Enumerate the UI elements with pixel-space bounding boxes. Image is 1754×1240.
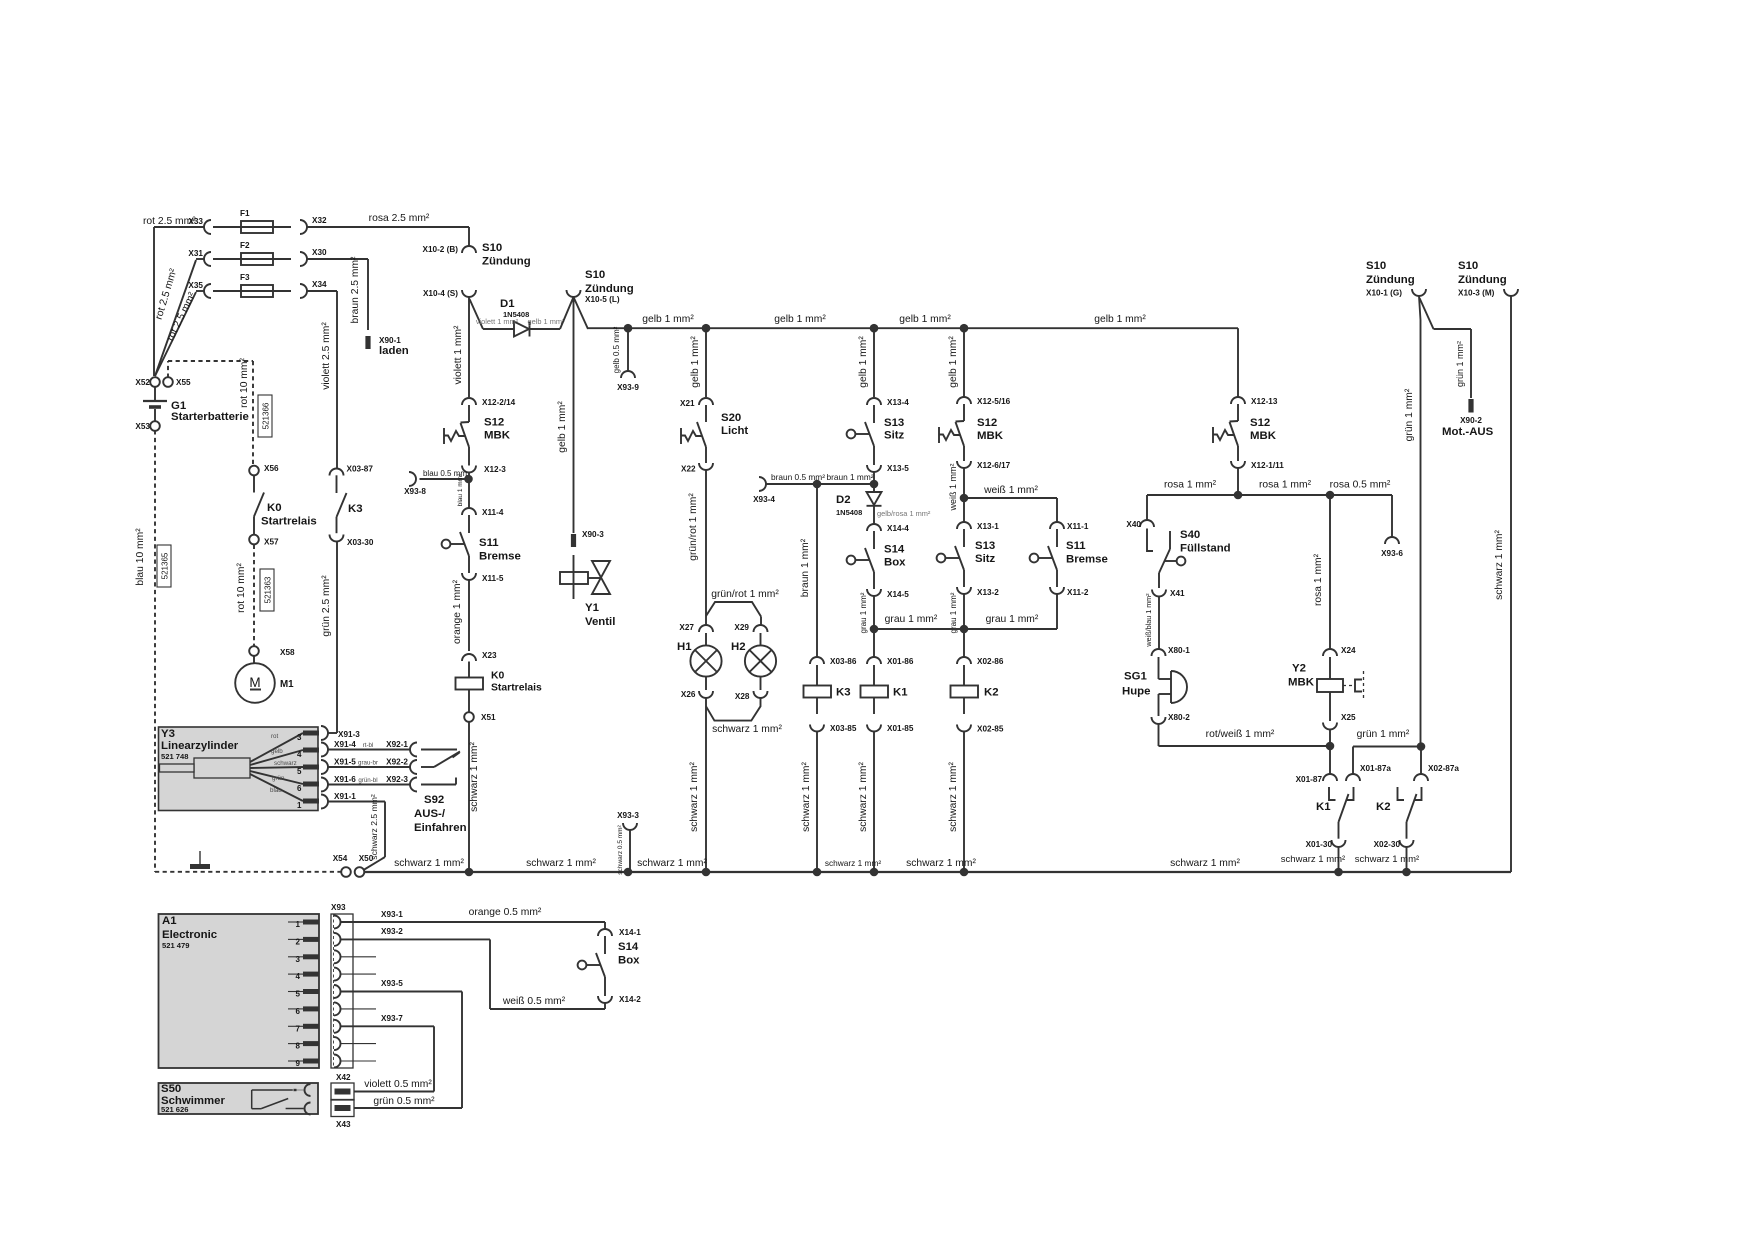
wire schwarz 1 mm² ground bus [364, 871, 1511, 873]
connector X93-4 [759, 477, 766, 491]
wire gruen 2.5 mm² X03-30 to X91-3 [336, 541, 338, 733]
svg-text:schwarz 1 mm²: schwarz 1 mm² [825, 858, 881, 868]
connector X93 pin 9 [334, 1055, 341, 1068]
svg-text:1: 1 [296, 920, 301, 929]
wire rosa 2.5 mm² from X32 to X10-2 [307, 226, 469, 228]
svg-text:grau 1 mm²: grau 1 mm² [859, 592, 868, 633]
svg-text:S20: S20 [721, 412, 741, 424]
svg-text:grün 2.5 mm²: grün 2.5 mm² [321, 575, 332, 637]
wire X10-5 V branches to gelb bus [560, 297, 574, 329]
svg-text:violett 0.5 mm²: violett 0.5 mm² [364, 1079, 432, 1090]
svg-text:X43: X43 [336, 1120, 351, 1129]
connector X03-30 [330, 535, 344, 542]
svg-text:Y1: Y1 [585, 602, 600, 614]
svg-text:S92: S92 [424, 794, 444, 806]
svg-text:X25: X25 [1341, 713, 1356, 722]
connector X54 [341, 867, 351, 877]
svg-text:8: 8 [296, 1042, 301, 1051]
svg-text:X13-1: X13-1 [977, 522, 999, 531]
svg-text:X80-2: X80-2 [1168, 713, 1190, 722]
svg-text:M: M [249, 675, 260, 690]
svg-text:M1: M1 [280, 679, 294, 690]
svg-text:X91-3: X91-3 [338, 730, 360, 739]
svg-text:X10-4 (S): X10-4 (S) [423, 289, 458, 298]
svg-text:X02-85: X02-85 [977, 725, 1004, 734]
svg-text:521 626: 521 626 [161, 1105, 188, 1114]
svg-text:X03-85: X03-85 [830, 724, 857, 733]
connector X91-4 [321, 743, 328, 757]
wire rot 10 mm² (dashed) X57 to X58 [253, 545, 255, 647]
svg-text:4: 4 [297, 750, 302, 759]
svg-text:6: 6 [297, 784, 302, 793]
svg-text:X10-1 (G): X10-1 (G) [1366, 289, 1402, 298]
connector X35 [204, 284, 211, 298]
wire orange 1 mm² X11-5 to X23 [468, 580, 470, 651]
S50 internal contact [251, 1090, 253, 1109]
svg-text:D1: D1 [500, 298, 515, 310]
svg-text:Zündung: Zündung [1366, 274, 1415, 286]
label 521363 [260, 569, 274, 611]
fuse F1 [213, 226, 291, 228]
svg-text:S10: S10 [585, 269, 605, 281]
svg-text:X93: X93 [331, 903, 346, 912]
connector X93 pin 3 [334, 950, 341, 963]
terminal X90-2 Mot.-AUS [1468, 399, 1473, 413]
connector X01-30 [1332, 840, 1346, 847]
svg-text:AUS-/: AUS-/ [414, 808, 446, 820]
svg-text:K1: K1 [893, 687, 908, 699]
svg-text:schwarz 1 mm²: schwarz 1 mm² [801, 762, 812, 832]
pin 9 of A1 [288, 1060, 303, 1062]
pin 1 with wire blau [250, 774, 303, 801]
ground symbol [199, 851, 201, 864]
svg-text:weiß 1 mm²: weiß 1 mm² [948, 463, 958, 511]
svg-text:grau 1 mm²: grau 1 mm² [885, 614, 938, 625]
svg-text:X02-30: X02-30 [1374, 840, 1401, 849]
svg-text:Bremse: Bremse [1066, 554, 1108, 566]
relay coil K1 [873, 665, 875, 686]
svg-text:X01-85: X01-85 [887, 724, 914, 733]
svg-text:X53: X53 [135, 422, 150, 431]
wire gruen 0.5 mm² X43 to X93-5 [354, 1107, 462, 1109]
svg-text:X93-4: X93-4 [753, 495, 775, 504]
svg-text:K3: K3 [348, 503, 363, 515]
wire to D2 [873, 472, 875, 492]
wire weiss/blau 1 mm² X41 to X80-1 [1158, 597, 1160, 650]
svg-text:Electronic: Electronic [162, 929, 217, 941]
wire rot 10 mm² (dashed) X55 to X56 [167, 361, 169, 378]
svg-text:X11-5: X11-5 [482, 574, 504, 583]
svg-text:X14-2: X14-2 [619, 995, 641, 1004]
wire orange 0.5 mm² X93-1 to X14-1 [340, 921, 605, 923]
svg-text:X91-6: X91-6 [334, 775, 356, 784]
connector X30 [300, 252, 307, 266]
svg-text:521 479: 521 479 [162, 941, 189, 950]
connector X31 [204, 252, 211, 266]
wire grau-br X91-5 to X92-2 [328, 766, 410, 768]
connector X13-1 [957, 522, 971, 529]
wire rot/weiss 1 mm² X80-2 to Y2 column [1158, 724, 1160, 746]
svg-text:Füllstand: Füllstand [1180, 543, 1231, 555]
svg-text:schwarz 1 mm²: schwarz 1 mm² [948, 762, 959, 832]
svg-text:Sitz: Sitz [975, 553, 996, 565]
node weiss junction [960, 494, 969, 503]
connector X40 [1140, 520, 1154, 527]
svg-text:gelb 0.5 mm²: gelb 0.5 mm² [612, 326, 621, 373]
svg-text:grün 1 mm²: grün 1 mm² [1404, 388, 1415, 441]
svg-text:S12: S12 [977, 417, 997, 429]
connector X01-87 [1323, 774, 1337, 781]
wire violett 0.5 mm² X42 to X93-7 [354, 1091, 434, 1093]
switch S20 Licht [705, 405, 707, 422]
svg-text:Box: Box [884, 557, 906, 569]
svg-text:Sitz: Sitz [884, 430, 905, 442]
svg-text:X93-9: X93-9 [617, 383, 639, 392]
svg-text:schwarz 1 mm²: schwarz 1 mm² [712, 724, 782, 735]
terminal X90-3 [571, 534, 576, 547]
svg-text:Hupe: Hupe [1122, 686, 1150, 698]
node rosa junction X12 [1234, 491, 1243, 500]
connector X50 [355, 867, 365, 877]
connector X53 [150, 421, 160, 431]
relay contact K0 Startrelais [253, 475, 255, 493]
wire gelb 1 mm² bus to X13-4 [873, 328, 875, 397]
svg-text:MBK: MBK [484, 430, 511, 442]
wire schwarz 1 mm² X51 to bus [468, 721, 470, 872]
connector X93-3 [623, 823, 637, 830]
connector X25 [1323, 723, 1337, 730]
connector X91-1 [321, 795, 328, 809]
connector X02-85 [957, 725, 971, 732]
svg-text:K2: K2 [984, 687, 999, 699]
svg-text:X12-13: X12-13 [1251, 397, 1278, 406]
svg-text:grün 1 mm²: grün 1 mm² [1455, 341, 1465, 387]
connector X22 [699, 463, 713, 470]
svg-text:SG1: SG1 [1124, 671, 1147, 683]
svg-text:X13-4: X13-4 [887, 398, 909, 407]
svg-text:X12-5/16: X12-5/16 [977, 397, 1011, 406]
pin 5 with wire schwarz [250, 767, 303, 768]
pin 2 of A1 [288, 938, 303, 940]
svg-text:X58: X58 [280, 648, 295, 657]
svg-text:braun 2.5 mm²: braun 2.5 mm² [350, 256, 361, 324]
wire schwarz 2.5 mm² X91-1 to X50 [328, 801, 385, 803]
svg-text:X32: X32 [312, 216, 327, 225]
svg-text:blau 10 mm²: blau 10 mm² [135, 528, 146, 586]
connector X93 pin 8 [334, 1037, 341, 1050]
connector X12-13 [1231, 397, 1245, 404]
wire gelb 1 mm² X10-5 down to Y1 [573, 297, 575, 533]
connector X93 pin 1 [334, 916, 341, 929]
wire rosa 1 mm² down to bus [1237, 468, 1239, 495]
connector X12-5/16 [957, 397, 971, 404]
svg-text:7: 7 [296, 1024, 301, 1033]
svg-text:X02-87a: X02-87a [1428, 764, 1459, 773]
wire braun 1 mm² down to X03-86 [816, 484, 818, 657]
svg-text:grün/rot 1 mm²: grün/rot 1 mm² [688, 493, 699, 561]
svg-text:MBK: MBK [977, 430, 1004, 442]
svg-text:braun 1 mm²: braun 1 mm² [826, 472, 873, 482]
connector X02-86 [957, 657, 971, 664]
connector X13-5 [867, 465, 881, 472]
svg-text:D2: D2 [836, 494, 851, 506]
svg-text:S40: S40 [1180, 529, 1200, 541]
svg-text:K0: K0 [491, 671, 505, 682]
svg-text:gelb 1 mm²: gelb 1 mm² [690, 336, 701, 388]
svg-text:F1: F1 [240, 209, 250, 218]
wire gruen 1 mm² X10-1 down to K contacts [1419, 296, 1421, 320]
node grau junction [870, 625, 879, 634]
svg-text:X10-5 (L): X10-5 (L) [585, 295, 620, 304]
svg-text:X03-86: X03-86 [830, 657, 857, 666]
svg-text:rot 10 mm²: rot 10 mm² [239, 358, 250, 408]
node braun junction S13 column [870, 480, 879, 489]
svg-text:X21: X21 [680, 399, 695, 408]
connector X28 [754, 691, 768, 698]
wire gelb 1 mm² bus corner down to X12-13 [1237, 328, 1239, 397]
connector X23 [462, 654, 476, 661]
svg-text:X01-86: X01-86 [887, 657, 914, 666]
connector X56 [249, 466, 259, 476]
svg-text:X90-3: X90-3 [582, 530, 604, 539]
svg-text:rt-bl: rt-bl [363, 742, 374, 749]
svg-text:schwarz 1 mm²: schwarz 1 mm² [906, 858, 976, 869]
connector X24 [1323, 649, 1337, 656]
wire rosa bus left corner to X40 [1146, 495, 1148, 520]
float switch S50 Schwimmer block [159, 1083, 319, 1114]
svg-text:X12-3: X12-3 [484, 465, 506, 474]
svg-text:gelb 1 mm²: gelb 1 mm² [557, 401, 568, 453]
svg-text:S12: S12 [484, 417, 504, 429]
svg-text:gelb 1 mm²: gelb 1 mm² [899, 314, 951, 325]
connector strip X93 [331, 914, 353, 1068]
connector X21 [699, 398, 713, 405]
node rosa junction Y2 [1326, 491, 1335, 500]
wire rot 2.5 mm² from battery to F3 (X35) [155, 292, 196, 376]
svg-text:S11: S11 [1066, 540, 1086, 552]
fuse F2 [213, 258, 291, 260]
svg-text:gelb 1 mm²: gelb 1 mm² [948, 336, 959, 388]
connector X03-85 [810, 725, 824, 732]
svg-text:X14-5: X14-5 [887, 590, 909, 599]
svg-text:S13: S13 [884, 417, 904, 429]
svg-text:orange 1 mm²: orange 1 mm² [452, 579, 463, 644]
pin 8 of A1 [288, 1043, 303, 1045]
svg-text:X11-4: X11-4 [482, 508, 504, 517]
svg-text:X13-5: X13-5 [887, 464, 909, 473]
svg-text:violett 1 mm²: violett 1 mm² [476, 317, 519, 326]
svg-text:X91-1: X91-1 [334, 792, 356, 801]
svg-text:S12: S12 [1250, 417, 1270, 429]
connector X11-5 [462, 573, 476, 580]
switch S13 Sitz (2) [963, 529, 965, 547]
svg-text:schwarz 1 mm²: schwarz 1 mm² [526, 858, 596, 869]
svg-text:violett 2.5 mm²: violett 2.5 mm² [321, 322, 332, 390]
connector X12-2/14 [462, 398, 476, 405]
svg-text:X34: X34 [312, 280, 327, 289]
connector X55 [163, 377, 173, 387]
wire gelb 1 mm² bus [588, 327, 1238, 329]
node gelb junction S12 [960, 324, 969, 333]
svg-text:2: 2 [296, 937, 301, 946]
svg-text:gelb 1 mm²: gelb 1 mm² [774, 314, 826, 325]
connector X32 [300, 220, 307, 234]
wire rot 2.5 mm² from battery to F1 [153, 227, 155, 376]
wire rosa 1 mm² bus [1147, 494, 1392, 496]
label 521366 [258, 395, 272, 437]
svg-text:X10-3 (M): X10-3 (M) [1458, 289, 1495, 298]
svg-text:rosa 0.5 mm²: rosa 0.5 mm² [1330, 480, 1391, 491]
svg-text:X13-2: X13-2 [977, 588, 999, 597]
svg-text:X02-86: X02-86 [977, 657, 1004, 666]
svg-text:X91-5: X91-5 [334, 758, 356, 767]
connector X93-9 [621, 371, 635, 378]
svg-text:X54: X54 [333, 854, 348, 863]
svg-text:schwarz 0.5 mm²: schwarz 0.5 mm² [617, 824, 624, 874]
svg-text:X12-2/14: X12-2/14 [482, 398, 516, 407]
svg-text:weiß 0.5 mm²: weiß 0.5 mm² [502, 996, 566, 1007]
svg-text:S13: S13 [975, 540, 995, 552]
svg-text:schwarz 1 mm²: schwarz 1 mm² [858, 762, 869, 832]
svg-text:grau-br: grau-br [358, 760, 378, 767]
connector X92-1 [410, 743, 417, 757]
node gelb junction S20 [702, 324, 711, 333]
wire rosa 0.5 right corner to X93-6 [1391, 495, 1393, 537]
wire schwarz 1 mm² K1 to bus [873, 732, 875, 873]
svg-text:Y3: Y3 [161, 728, 175, 740]
valve Y1 Ventil [573, 555, 575, 599]
pin 6 with wire gruen [250, 771, 303, 784]
connector X57 [249, 535, 259, 545]
svg-text:Box: Box [618, 955, 640, 967]
node junction blau [468, 473, 470, 509]
connector X10-5 (L) S10 Zündung [567, 290, 581, 297]
svg-text:A1: A1 [162, 915, 177, 927]
wire rot 2.5 mm² from battery to F2 (X31) [155, 260, 196, 376]
connector X01-86 [867, 657, 881, 664]
connector X93-8 [409, 472, 416, 486]
svg-text:521366: 521366 [262, 402, 271, 429]
switch S12 MBK (3) [1237, 404, 1239, 421]
connector X14-5 [867, 589, 881, 596]
connector X01-85 [867, 725, 881, 732]
relay contact K1 [1329, 787, 1336, 800]
wire branch to X90-2 Mot.-AUS [1420, 298, 1434, 329]
wire ground bus dashed segment [155, 871, 342, 873]
svg-text:grün/rot 1 mm²: grün/rot 1 mm² [711, 589, 779, 600]
connector X41 [1152, 590, 1166, 597]
wire rosa 1 mm² to X24 [1329, 495, 1331, 649]
connector X03-86 [810, 657, 824, 664]
svg-text:X55: X55 [176, 378, 191, 387]
svg-text:X30: X30 [312, 248, 327, 257]
svg-text:schwarz 1 mm²: schwarz 1 mm² [637, 858, 707, 869]
svg-text:X01-87: X01-87 [1296, 775, 1323, 784]
motor M1 [253, 655, 255, 663]
svg-text:grün: grün [272, 775, 285, 782]
svg-text:K2: K2 [1376, 801, 1391, 813]
connector X92-3 [410, 778, 417, 792]
svg-text:grau 1 mm²: grau 1 mm² [986, 614, 1039, 625]
svg-text:X56: X56 [264, 464, 279, 473]
connector X12-1/11 [1231, 461, 1245, 468]
svg-text:X29: X29 [734, 623, 749, 632]
connector X93 pin 2 [334, 933, 341, 946]
switch S13 Sitz [873, 405, 875, 423]
wire schwarz 1 mm² K2 to bus [963, 732, 965, 873]
connector X80-1 [1152, 649, 1166, 656]
svg-text:Zündung: Zündung [482, 256, 531, 268]
svg-text:X93-8: X93-8 [404, 487, 426, 496]
switch S12 MBK (2) [963, 404, 965, 421]
svg-text:4: 4 [296, 972, 301, 981]
wire X93-7 to violett corner [340, 1025, 434, 1027]
svg-text:X14-1: X14-1 [619, 928, 641, 937]
svg-text:violett 1 mm²: violett 1 mm² [453, 325, 464, 385]
connector X11-1 [1050, 522, 1064, 529]
wire braun 0.5 mm² / braun 1 mm² [766, 483, 874, 485]
svg-text:rosa 1 mm²: rosa 1 mm² [1259, 480, 1312, 491]
wire violett 1 mm² X10-4 down to X12-2/14 [468, 297, 470, 397]
svg-text:gelb 1 mm²: gelb 1 mm² [528, 317, 566, 326]
svg-text:5: 5 [297, 767, 302, 776]
svg-text:X33: X33 [188, 217, 203, 226]
svg-text:rosa 2.5 mm²: rosa 2.5 mm² [369, 213, 430, 224]
svg-text:521363: 521363 [264, 576, 273, 603]
wire schwarz 1 mm² K3 to bus [816, 732, 818, 873]
svg-text:Y2: Y2 [1292, 663, 1306, 675]
pin 5 of A1 [288, 991, 303, 993]
connector X14-2 [598, 996, 612, 1003]
svg-text:X40: X40 [1126, 520, 1141, 529]
switch S11 Bremse (2) [1056, 529, 1058, 547]
svg-text:1: 1 [297, 801, 302, 810]
svg-text:9: 9 [296, 1059, 301, 1068]
wire grau 1 mm² to X02-86 [963, 594, 965, 657]
wire gruen/rot branch to H2 [706, 602, 761, 617]
svg-text:X22: X22 [681, 465, 696, 474]
switch S14 Box [873, 531, 875, 549]
svg-text:X12-1/11: X12-1/11 [1251, 461, 1284, 470]
connector X52 [150, 377, 160, 387]
svg-text:X93-1: X93-1 [381, 910, 403, 919]
svg-text:gelb 1 mm²: gelb 1 mm² [642, 314, 694, 325]
svg-text:X23: X23 [482, 651, 497, 660]
connector X43 [331, 1100, 354, 1117]
relay contact K3 [336, 475, 338, 493]
svg-text:Einfahren: Einfahren [414, 822, 467, 834]
fuse F3 [213, 290, 291, 292]
svg-text:Zündung: Zündung [585, 283, 634, 295]
switch S11 Bremse [468, 515, 470, 533]
wire gruen-bl X91-6 to X92-3 [328, 784, 410, 786]
switch S14 Box (bottom) [604, 936, 606, 954]
label 521365 [157, 545, 171, 587]
connector X01-87a [1346, 774, 1360, 781]
svg-text:H1: H1 [677, 641, 692, 653]
svg-text:blau: blau [270, 787, 282, 794]
wire schwarz 1 mm² lamp merge to bus [705, 698, 707, 872]
svg-text:Bremse: Bremse [479, 551, 521, 563]
wire gruen/rot 1 mm² X22 down to lamps [705, 470, 707, 616]
svg-text:Starterbatterie: Starterbatterie [171, 411, 249, 423]
solenoid Y2 MBK [1329, 657, 1331, 679]
svg-text:521 748: 521 748 [161, 752, 188, 761]
svg-text:Zündung: Zündung [1458, 274, 1507, 286]
relay coil K3 [816, 665, 818, 686]
svg-text:gelb 1 mm²: gelb 1 mm² [1094, 314, 1146, 325]
svg-text:laden: laden [379, 345, 409, 357]
